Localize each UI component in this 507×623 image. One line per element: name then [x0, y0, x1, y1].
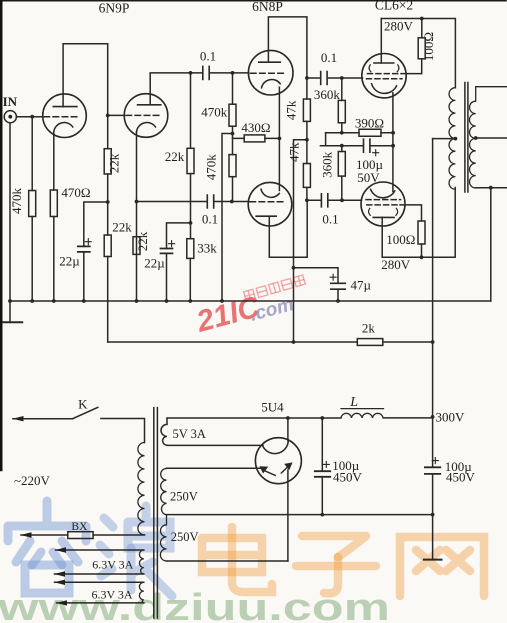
border top edge	[0, 0, 506, 2]
wire to V1b grid	[108, 114, 125, 116]
node bus junctions	[8, 299, 340, 303]
svg-text:6.3V 3A: 6.3V 3A	[91, 587, 132, 601]
capacitor 22u stage1	[78, 246, 90, 252]
svg-text:470k: 470k	[9, 188, 24, 215]
resistor 360k lower	[341, 146, 343, 201]
tube V2b 6N8P triode inverted	[248, 182, 292, 226]
node 0.1 to 470k chain	[231, 71, 235, 75]
node 47u takeoff	[292, 266, 296, 270]
svg-text:5V 3A: 5V 3A	[172, 427, 205, 441]
svg-text:6.3V 3A: 6.3V 3A	[92, 558, 133, 572]
svg-text:50V: 50V	[357, 170, 380, 185]
svg-text:280V: 280V	[384, 18, 414, 33]
wire V3 cathode down to V4 cathode	[392, 93, 394, 192]
wire V4 plate line to output transformer	[382, 188, 455, 258]
node secondary bottom	[489, 186, 493, 190]
tube V1b 6N9P triode	[124, 94, 168, 138]
resistor 360k upper	[341, 78, 343, 133]
node filament / B+ line	[286, 416, 290, 420]
resistor 2k	[357, 339, 383, 346]
wire to 47u	[294, 268, 339, 284]
tube V3 CL6 upper	[362, 53, 406, 97]
wire V1b plate riser and top coupling line	[150, 73, 248, 105]
svg-text:300V: 300V	[436, 409, 466, 424]
wire 5U4 filament top lead	[287, 418, 289, 441]
wire 5V bottom lead	[167, 444, 263, 446]
ground bus main	[10, 300, 491, 302]
node cathode line at 100u	[391, 144, 395, 148]
capacitor 100u 450V input	[321, 418, 323, 471]
tube V5 5U4 rectifier	[255, 438, 301, 484]
node 300V	[431, 415, 435, 419]
wire 5V top lead / B+ unfiltered	[167, 417, 341, 419]
power transformer core	[154, 408, 158, 618]
svg-text:0.1: 0.1	[322, 212, 338, 227]
node 22k/33k/22u junction	[189, 221, 193, 225]
capacitor 22u stage2	[161, 249, 173, 254]
wire junction to 22u cap 2	[167, 223, 191, 249]
tube V2a 6N8P triode	[248, 50, 293, 95]
node cathodes V2a/V2b + 430R	[278, 137, 282, 141]
watermark blue char rong	[8, 501, 86, 593]
wire V3 plate riser	[380, 19, 382, 64]
resistor 430R	[233, 137, 280, 139]
ground symbol left	[9, 301, 11, 322]
node secondary mid tap	[474, 136, 478, 140]
watermark orange char dian	[202, 527, 272, 592]
wire jack shield down to ground bus	[9, 123, 11, 301]
svg-text:450V: 450V	[333, 470, 363, 485]
svg-text:47k: 47k	[287, 142, 302, 162]
HV winding 250V upper	[160, 469, 166, 562]
wire secondary mid tap out	[476, 137, 507, 139]
node 360k upper grid	[340, 76, 344, 80]
node 360k upper bottom	[340, 131, 344, 135]
ground symbol power supply	[432, 515, 434, 560]
svg-text:280V: 280V	[381, 257, 411, 272]
watermark orange char wang	[400, 537, 484, 596]
wire 5U4 lower plate down	[287, 470, 289, 561]
capacitor 100u 50V	[364, 139, 370, 152]
wire B+ riser preamp	[294, 140, 307, 342]
border left edge	[0, 0, 3, 470]
wire V2a cathode to V2b cathode	[278, 87, 280, 190]
svg-text:CL6×2: CL6×2	[375, 0, 413, 13]
capacitor 0.1 coupling top-left	[203, 66, 209, 79]
svg-text:390Ω: 390Ω	[355, 116, 384, 131]
wire V1b cathode down	[136, 132, 138, 301]
heater winding 6.3V A	[139, 550, 143, 574]
svg-text:2k: 2k	[362, 321, 376, 336]
svg-text:~220V: ~220V	[14, 473, 51, 488]
node 470k chain bottom to coupling line	[230, 200, 234, 204]
wire 280V top rail	[381, 19, 455, 88]
svg-text:www.dziuu.com: www.dziuu.com	[0, 587, 390, 623]
resistor 22k upper of divider	[107, 115, 109, 202]
svg-text:360k: 360k	[320, 151, 335, 178]
watermark blue char lang	[100, 506, 172, 596]
node V2b plate / coupling	[305, 198, 309, 202]
resistor 22k lower of divider	[107, 202, 109, 342]
wire lower CL6 grid line	[307, 199, 362, 201]
svg-text:22µ: 22µ	[144, 256, 165, 271]
node rail 100R takeoff	[420, 17, 424, 21]
svg-text:22k: 22k	[135, 231, 150, 251]
wire V4 screen to 100R	[400, 205, 422, 221]
node 2k line riser right	[431, 340, 435, 344]
capacitor 100u 450V output	[425, 467, 440, 474]
node 47k junction B+	[305, 138, 309, 142]
svg-text:BX: BX	[71, 521, 88, 533]
choke L	[341, 413, 383, 418]
svg-text:0.1: 0.1	[202, 212, 218, 227]
wire HV center tap ground line	[167, 514, 433, 516]
node cap2 bottom / ground line end	[431, 513, 435, 517]
node 360k lower bottom	[340, 198, 344, 202]
svg-text:250V: 250V	[170, 490, 198, 504]
svg-text:470k: 470k	[201, 104, 228, 119]
wire secondary bottom out	[476, 187, 507, 189]
resistor 100R screen lower	[418, 221, 425, 244]
heater winding 6.3V B	[139, 582, 143, 603]
node 360k lower top	[340, 144, 344, 148]
resistor 22k load (x190)	[190, 73, 192, 223]
resistor 22k cathode V1b	[133, 237, 140, 255]
svg-text:22k: 22k	[112, 220, 132, 235]
svg-text:IN: IN	[3, 94, 18, 109]
node V1b grid junction	[106, 114, 110, 118]
svg-text:0.1: 0.1	[200, 49, 216, 64]
node primary center tap	[454, 137, 458, 141]
wire center tap to B+ riser	[433, 138, 456, 140]
wire 6.3V A leads	[56, 549, 144, 551]
wire B+ line 2k	[108, 341, 433, 343]
wire 250V lower lead	[167, 560, 288, 562]
output transformer secondary winding	[470, 87, 507, 188]
svg-text:6N9P: 6N9P	[99, 1, 130, 16]
node 100R lower at plate line	[420, 255, 424, 259]
capacitor 47u decoupling	[331, 283, 345, 289]
capacitor 0.1 coupling top-right	[321, 72, 327, 85]
svg-text:250V: 250V	[171, 530, 199, 544]
output transformer core	[465, 83, 468, 193]
node grid line takeoff	[305, 76, 309, 80]
wire mid coupling line	[137, 201, 249, 203]
node divider midpoint	[106, 200, 110, 204]
node jack/470k junction	[30, 115, 34, 119]
capacitor 0.1 coupling mid-left	[207, 195, 213, 208]
svg-text:0.1: 0.1	[321, 50, 337, 65]
node plate line / 22k load	[189, 71, 193, 75]
node cathode coupling takeoff	[135, 200, 139, 204]
svg-text:33k: 33k	[197, 241, 217, 256]
wire bias return stub	[325, 133, 327, 146]
wire 100u50V line	[320, 145, 393, 147]
tube V4 CL6 lower inverted	[361, 182, 405, 226]
resistor 100R screen upper	[401, 19, 422, 74]
power transformer primary winding	[138, 443, 145, 535]
wire 390R cathode line	[326, 132, 394, 134]
wire chain mid down-drop to bus	[222, 134, 233, 302]
svg-text:47µ: 47µ	[351, 277, 372, 292]
wire 250V upper lead to 5U4 plate	[167, 467, 263, 469]
svg-text:100Ω: 100Ω	[421, 32, 436, 61]
input jack IN	[4, 111, 16, 123]
output transformer primary winding	[449, 88, 455, 190]
resistor 33k	[189, 223, 191, 301]
resistor 470k grid upper (chain)	[232, 73, 234, 155]
watermark small red cn text	[244, 275, 306, 301]
resistor 470k grid lower (chain)	[229, 155, 236, 177]
node cathode line at 390R	[391, 131, 395, 135]
wire V2a plate bracket to 47k chain	[268, 17, 307, 99]
resistor 470R cathode V1a	[50, 190, 57, 217]
fuse BX	[21, 534, 145, 536]
tube V1a 6N9P triode	[43, 94, 87, 138]
svg-text:360k: 360k	[314, 87, 341, 102]
resistor 390R	[359, 129, 381, 136]
wire 6.3V B leads	[55, 581, 144, 583]
node 2k line riser left	[292, 340, 296, 344]
wire midpoint to 22u cap	[84, 202, 108, 246]
svg-text:K: K	[78, 397, 88, 412]
wire V1a cathode	[53, 132, 55, 190]
svg-text:47k: 47k	[284, 100, 299, 120]
svg-text:22k: 22k	[165, 149, 185, 164]
svg-text:470Ω: 470Ω	[61, 185, 90, 200]
svg-text:L: L	[349, 395, 358, 410]
wire secondary bottom to ground bus	[490, 188, 492, 301]
svg-text:430Ω: 430Ω	[241, 120, 270, 135]
switch K mains	[13, 418, 73, 420]
svg-text:5U4: 5U4	[261, 399, 284, 414]
capacitor 0.1 coupling mid-right	[321, 194, 327, 207]
resistor 47k plate V2b	[303, 164, 310, 188]
svg-text:450V: 450V	[446, 470, 476, 485]
svg-text:6N8P: 6N8P	[252, 0, 283, 14]
wire jack to tube1 grid	[16, 116, 43, 118]
svg-text:22µ: 22µ	[59, 254, 80, 269]
svg-text:100Ω: 100Ω	[386, 232, 415, 247]
wire V1a plate up and over to V1b grid	[63, 44, 108, 116]
wire V2b plate hook	[269, 200, 307, 257]
resistor 470k grid input	[31, 117, 33, 301]
node cap1 bottom	[320, 513, 324, 517]
node 470k chain mid	[231, 132, 235, 136]
wire B+ riser main	[432, 139, 434, 515]
svg-text:470k: 470k	[203, 154, 218, 181]
wire choke to 300V node	[384, 417, 433, 419]
resistor 47k plate V2a	[303, 99, 310, 121]
svg-text:22k: 22k	[107, 153, 122, 173]
watermark orange char zi	[296, 536, 376, 593]
rectifier winding 5V 3A	[161, 418, 167, 445]
wire upper CL6 grid line	[307, 77, 363, 79]
